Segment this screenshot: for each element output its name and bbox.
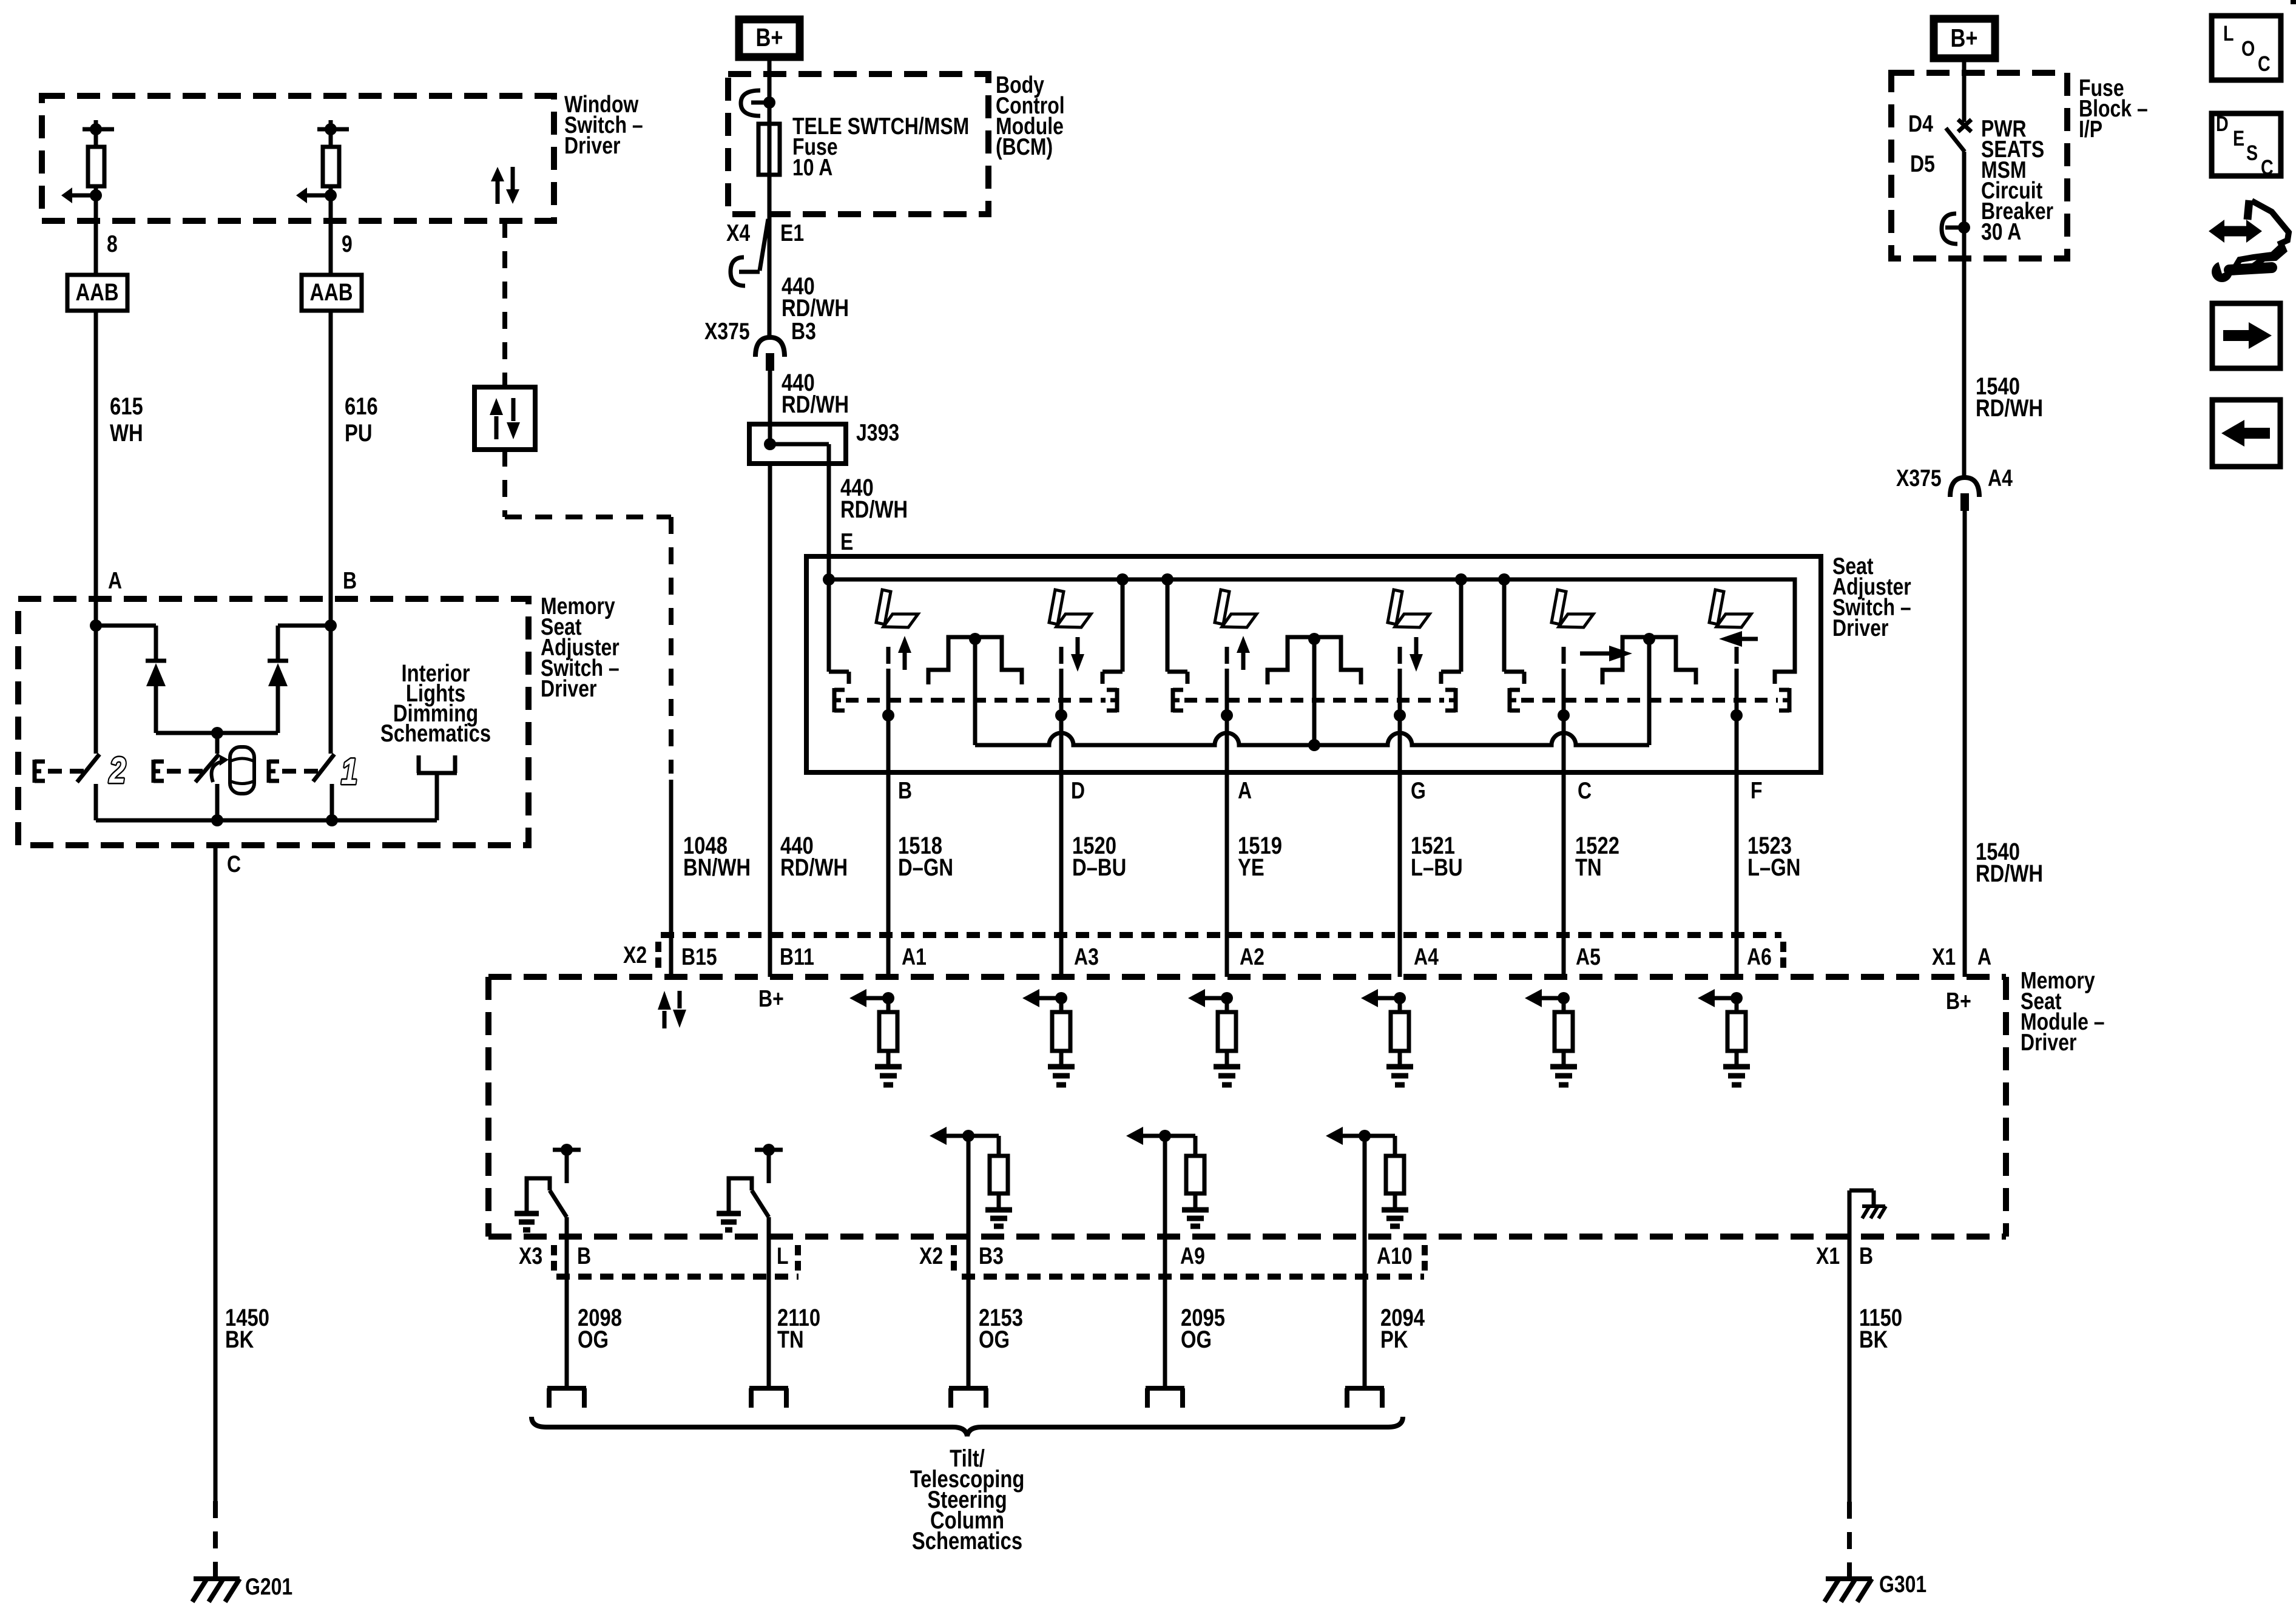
direction arrow (A) bbox=[1237, 636, 1250, 670]
svg-text:G: G bbox=[1411, 777, 1426, 804]
ground G201 bbox=[192, 1579, 240, 1602]
svg-text:B+: B+ bbox=[758, 985, 784, 1012]
label: Fuse Block - I/P bbox=[2079, 75, 2148, 143]
input resistor to ground (A1) bbox=[849, 989, 902, 1085]
label 1519 YE bbox=[1238, 832, 1282, 881]
switch feed left (A) bbox=[1167, 579, 1187, 684]
wire 615 WH bbox=[94, 311, 98, 599]
connector AAB (right) bbox=[302, 275, 362, 311]
label 1540 RD/WH (2) bbox=[1976, 838, 2043, 887]
svg-text:Driver: Driver bbox=[1832, 615, 1889, 641]
label G201 bbox=[245, 1573, 292, 1600]
svg-text:C: C bbox=[2261, 155, 2274, 179]
svg-text:616: 616 bbox=[345, 393, 378, 420]
pin B label (X1) bbox=[1859, 1243, 1873, 1269]
seat icon (F) bbox=[1709, 590, 1751, 627]
icon DESC bbox=[2212, 112, 2281, 179]
B+ bus inside seat switch bbox=[823, 573, 1795, 684]
switch mid lower contact stub bbox=[215, 784, 220, 820]
input resistor to ground (A5) bbox=[1525, 989, 1577, 1085]
fuse block - I/P box bbox=[1891, 73, 2067, 258]
wire pin F bbox=[1735, 715, 1739, 977]
up/down arrow box symbol bbox=[474, 387, 535, 450]
wire E into seat adjuster switch bbox=[827, 464, 831, 579]
pin A9 label bbox=[1180, 1243, 1205, 1269]
label 2098 OG bbox=[578, 1304, 622, 1353]
svg-text:B+: B+ bbox=[756, 24, 783, 52]
svg-text:PU: PU bbox=[345, 419, 373, 447]
wire pin C bbox=[1562, 715, 1566, 977]
svg-text:AAB: AAB bbox=[309, 279, 353, 306]
label X2 (top) bbox=[623, 942, 647, 968]
pin A label (X1) bbox=[1977, 944, 1991, 970]
svg-text:RD/WH: RD/WH bbox=[780, 854, 848, 881]
svg-text:O: O bbox=[2241, 36, 2255, 60]
wire pin D bbox=[1059, 715, 1064, 977]
svg-text:615: 615 bbox=[110, 393, 143, 420]
ground G301 bbox=[1825, 1579, 1872, 1602]
seat icon (G) bbox=[1388, 590, 1430, 627]
svg-text:Schematics: Schematics bbox=[912, 1527, 1022, 1555]
wire X375 to J393 bbox=[768, 371, 772, 444]
svg-text:X1: X1 bbox=[1816, 1243, 1840, 1269]
icon harness repair bbox=[2209, 200, 2289, 282]
svg-text:TN: TN bbox=[1575, 854, 1602, 881]
svg-text:WH: WH bbox=[110, 419, 143, 447]
wire pin G bbox=[1398, 715, 1402, 977]
label: PWR SEATS MSM Circuit Breaker 30 A bbox=[1981, 115, 2053, 245]
pin 9 label bbox=[342, 231, 353, 257]
label X375 bbox=[704, 318, 750, 345]
output driver with resistor to ground (pin B3) bbox=[930, 1127, 1012, 1388]
svg-text:A10: A10 bbox=[1377, 1243, 1413, 1269]
direction arrow (C) bbox=[1580, 646, 1632, 661]
label: TELE SWTCH/MSM Fuse 10 A bbox=[792, 113, 969, 181]
pin letter C bbox=[1578, 777, 1592, 804]
terminal at wire B bbox=[547, 1388, 586, 1408]
svg-text:X375: X375 bbox=[704, 318, 750, 345]
splice J393 bbox=[749, 424, 846, 464]
pin A1 label bbox=[902, 944, 927, 970]
input resistor to ground (A6) bbox=[1698, 989, 1750, 1085]
label G301 bbox=[1879, 1571, 1926, 1598]
svg-text:F: F bbox=[1751, 777, 1763, 804]
label J393 bbox=[856, 419, 899, 446]
svg-text:B+: B+ bbox=[1946, 988, 1971, 1014]
svg-text:L–BU: L–BU bbox=[1411, 854, 1463, 881]
window switch contact (pin 9) with resistor and arrow bbox=[296, 120, 349, 221]
label: Window Switch - Driver bbox=[564, 91, 643, 159]
svg-text:B: B bbox=[343, 567, 357, 594]
label 440 RD/WH (3) bbox=[840, 474, 908, 523]
label: Body Control Module (BCM) bbox=[996, 72, 1065, 160]
svg-text:B+: B+ bbox=[1951, 24, 1978, 53]
seat icon (B) bbox=[876, 590, 918, 627]
direction arrow (B) bbox=[898, 636, 911, 670]
svg-text:A5: A5 bbox=[1576, 944, 1601, 970]
output switch to ground (pin B, X3) bbox=[515, 1144, 581, 1388]
label 2094 PK bbox=[1380, 1304, 1425, 1353]
wire B into switch bbox=[325, 599, 337, 754]
svg-text:B15: B15 bbox=[681, 944, 717, 970]
label X4 bbox=[726, 220, 750, 246]
switch mid arm bbox=[195, 754, 219, 782]
pin B3 label bbox=[979, 1243, 1004, 1269]
icon LOC bbox=[2212, 16, 2281, 80]
wire 440 RD/WH to B11 bbox=[768, 464, 772, 977]
svg-text:A4: A4 bbox=[1414, 944, 1439, 970]
direction arrow (F) bbox=[1719, 631, 1758, 647]
pin C label bbox=[227, 851, 241, 877]
svg-text:RD/WH: RD/WH bbox=[1976, 394, 2043, 422]
label E1 bbox=[780, 220, 804, 246]
switch feed right (G) bbox=[1441, 579, 1461, 684]
interior lights dimming terminal bbox=[417, 755, 457, 820]
guide contact (C/F) bbox=[1602, 633, 1696, 745]
circuit breaker PWR SEATS MSM 30A bbox=[1946, 120, 1971, 258]
svg-text:L: L bbox=[777, 1243, 789, 1269]
svg-text:B3: B3 bbox=[979, 1243, 1004, 1269]
switch pole B bbox=[882, 647, 894, 721]
terminal at wire B3 bbox=[949, 1388, 988, 1408]
label: Seat Adjuster Switch - Driver bbox=[1832, 553, 1911, 641]
svg-text:A3: A3 bbox=[1074, 944, 1099, 970]
wire pin9 to AAB bbox=[329, 221, 333, 275]
svg-text:G201: G201 bbox=[245, 1573, 292, 1600]
svg-text:D–GN: D–GN bbox=[898, 854, 953, 881]
pin letter F bbox=[1751, 777, 1763, 804]
label B3 bbox=[791, 318, 816, 345]
svg-text:OG: OG bbox=[1181, 1326, 1212, 1353]
seat icon (A) bbox=[1215, 590, 1257, 627]
switch pole F bbox=[1730, 647, 1743, 721]
pin A3 label bbox=[1074, 944, 1099, 970]
label 616 PU bbox=[345, 393, 378, 447]
connector AAB (left) bbox=[67, 275, 127, 311]
label 1522 TN bbox=[1575, 832, 1619, 881]
label B+ (X1 A) bbox=[1946, 988, 1971, 1014]
label: Memory Seat Module - Driver bbox=[2021, 967, 2105, 1056]
svg-text:C: C bbox=[227, 851, 241, 877]
switch 2 arm bbox=[77, 754, 100, 782]
svg-text:X2: X2 bbox=[919, 1243, 943, 1269]
wire 1450 BK bbox=[214, 845, 218, 1576]
label X1 (top) bbox=[1932, 944, 1956, 970]
svg-text:A4: A4 bbox=[1988, 465, 2013, 491]
input resistor to ground (A4) bbox=[1361, 989, 1413, 1085]
svg-text:D: D bbox=[2216, 112, 2229, 135]
svg-text:AAB: AAB bbox=[75, 279, 118, 306]
diode D-right bbox=[268, 626, 331, 733]
svg-text:B: B bbox=[577, 1243, 591, 1269]
svg-text:A2: A2 bbox=[1240, 944, 1264, 970]
svg-text:2: 2 bbox=[109, 749, 126, 791]
icon arrow left bbox=[2212, 400, 2280, 467]
svg-text:A: A bbox=[108, 567, 122, 594]
brace: tilt/telescoping steering column bbox=[532, 1417, 1403, 1436]
svg-text:B: B bbox=[898, 777, 912, 804]
diode D-left bbox=[96, 626, 166, 733]
label A4 bbox=[1988, 465, 2013, 491]
svg-text:E1: E1 bbox=[780, 220, 804, 246]
svg-text:YE: YE bbox=[1238, 854, 1264, 881]
label 1450 BK bbox=[225, 1304, 269, 1353]
page corner mark bbox=[2291, 0, 2296, 4]
label 1540 RD/WH (1) bbox=[1976, 373, 2043, 422]
svg-text:C: C bbox=[2258, 52, 2271, 75]
pin A5 label bbox=[1576, 944, 1601, 970]
svg-text:C: C bbox=[1578, 777, 1592, 804]
svg-text:X375: X375 bbox=[1896, 465, 1942, 491]
label 1048 BN/WH bbox=[683, 832, 751, 881]
switch pole G bbox=[1394, 647, 1406, 721]
pin letter G bbox=[1411, 777, 1426, 804]
svg-text:D4: D4 bbox=[1908, 110, 1933, 137]
output switch to ground (pin L, X3) bbox=[717, 1144, 783, 1388]
output driver with resistor to ground (pin A9) bbox=[1126, 1127, 1209, 1388]
svg-text:9: 9 bbox=[342, 231, 353, 257]
BCM internal terminal hook bbox=[741, 90, 775, 116]
svg-text:10 A: 10 A bbox=[792, 154, 832, 181]
label E pin bbox=[840, 528, 853, 555]
svg-text:X1: X1 bbox=[1932, 944, 1956, 970]
label D4 bbox=[1908, 110, 1933, 137]
svg-text:30 A: 30 A bbox=[1981, 218, 2021, 245]
label: Tilt/Telescoping Steering Column Schematics bbox=[910, 1445, 1025, 1555]
pin A2 label bbox=[1240, 944, 1264, 970]
svg-text:E: E bbox=[840, 528, 853, 555]
svg-text:(BCM): (BCM) bbox=[996, 133, 1053, 160]
svg-text:A: A bbox=[1238, 777, 1252, 804]
window switch contact (pin 8) with resistor and arrow bbox=[61, 120, 114, 221]
svg-text:B11: B11 bbox=[780, 944, 814, 970]
svg-text:L: L bbox=[2223, 21, 2234, 45]
wire pin8 to AAB bbox=[94, 221, 98, 275]
label 2153 OG bbox=[979, 1304, 1023, 1353]
pin B11 label bbox=[780, 944, 814, 970]
svg-text:BK: BK bbox=[1859, 1326, 1888, 1353]
svg-text:X2: X2 bbox=[623, 942, 647, 968]
label 615 WH bbox=[110, 393, 143, 447]
guide contact (A/G) bbox=[1268, 633, 1361, 745]
svg-text:BN/WH: BN/WH bbox=[683, 854, 751, 881]
svg-text:OG: OG bbox=[578, 1326, 609, 1353]
body control module (BCM) box bbox=[728, 74, 988, 214]
svg-text:RD/WH: RD/WH bbox=[840, 496, 908, 523]
switch feed right (D) bbox=[1102, 579, 1123, 684]
svg-text:A9: A9 bbox=[1180, 1243, 1205, 1269]
svg-text:L–GN: L–GN bbox=[1747, 854, 1800, 881]
pin L label (X3) bbox=[777, 1243, 789, 1269]
terminal at wire L bbox=[749, 1388, 788, 1408]
label 2095 OG bbox=[1181, 1304, 1225, 1353]
switch 1 pivot bracket and linkage bbox=[269, 760, 323, 783]
seat icon (D) bbox=[1049, 590, 1091, 627]
direction arrow (G) bbox=[1410, 637, 1423, 672]
connector X375 B3 inline bbox=[755, 337, 785, 371]
wire 1150 BK bbox=[1848, 1237, 1852, 1576]
svg-text:OG: OG bbox=[979, 1326, 1010, 1353]
label 1520 D-BU bbox=[1072, 832, 1126, 881]
dashed wire from window switch down bbox=[502, 221, 507, 387]
label 1521 L-BU bbox=[1411, 832, 1463, 881]
svg-text:Driver: Driver bbox=[564, 132, 621, 159]
wire 616 PU bbox=[329, 311, 333, 599]
memory seat module - driver box bbox=[488, 977, 2006, 1237]
svg-text:X3: X3 bbox=[519, 1243, 542, 1269]
connector X3 pin row bbox=[554, 1245, 799, 1277]
svg-text:I/P: I/P bbox=[2079, 116, 2102, 143]
switch feed left (C) bbox=[1504, 579, 1524, 684]
wire pin B bbox=[886, 715, 891, 977]
label 1518 D-GN bbox=[898, 832, 953, 881]
connector X2 top row bbox=[658, 935, 1783, 971]
fuse TELE SWTCH/MSM 10A bbox=[758, 124, 780, 175]
wire B+ into BCM bbox=[768, 61, 772, 124]
label B+ (B11) bbox=[758, 985, 784, 1012]
switch feed left (B) bbox=[829, 579, 849, 684]
switch pole A bbox=[1221, 647, 1233, 721]
svg-text:S: S bbox=[2246, 141, 2258, 164]
numeral 2 bbox=[109, 749, 126, 791]
breaker terminal hook bbox=[1942, 214, 1970, 244]
pin A label bbox=[108, 567, 122, 594]
label 1150 BK bbox=[1859, 1304, 1902, 1353]
switch 2 lower contact stub bbox=[94, 784, 98, 820]
pin B label bbox=[343, 567, 357, 594]
svg-text:G301: G301 bbox=[1879, 1571, 1926, 1598]
svg-text:X4: X4 bbox=[726, 220, 750, 246]
pin letter D bbox=[1071, 777, 1085, 804]
wire 1540 RD/WH lower bbox=[1963, 511, 1967, 977]
guide contact (B/D) bbox=[928, 633, 1022, 745]
switch 2 pivot bracket and linkage bbox=[35, 760, 89, 783]
svg-text:A6: A6 bbox=[1747, 944, 1772, 970]
svg-text:D5: D5 bbox=[1910, 150, 1935, 177]
switch 1 arm bbox=[313, 754, 334, 781]
memory seat adjuster switch - driver box bbox=[18, 599, 528, 845]
wire A into switch bbox=[90, 599, 102, 754]
svg-text:B3: B3 bbox=[791, 318, 816, 345]
linkage row (A/G) bbox=[1173, 688, 1456, 712]
label X375 (right) bbox=[1896, 465, 1942, 491]
output driver with resistor to ground (pin A10) bbox=[1326, 1127, 1408, 1388]
pin A4 label bbox=[1414, 944, 1439, 970]
label 440 RD/WH (1) bbox=[782, 272, 849, 322]
svg-text:D: D bbox=[1071, 777, 1085, 804]
up/down arrows in window switch box bbox=[491, 167, 519, 204]
battery feed B+ (fuse block) bbox=[1934, 19, 1995, 58]
switch common bus bbox=[96, 814, 437, 826]
switch pole D bbox=[1055, 647, 1067, 721]
label: Interior Lights Dimming Schematics bbox=[380, 660, 491, 747]
svg-text:Driver: Driver bbox=[2021, 1029, 2077, 1056]
label D5 bbox=[1910, 150, 1935, 177]
svg-text:Schematics: Schematics bbox=[380, 720, 491, 747]
wire B15 solid segment bbox=[669, 780, 674, 977]
svg-text:Driver: Driver bbox=[541, 675, 597, 702]
label 440 RD/WH (2) bbox=[782, 369, 849, 418]
svg-text:D–BU: D–BU bbox=[1072, 854, 1126, 881]
svg-text:E: E bbox=[2233, 126, 2244, 150]
input resistor to ground (A2) bbox=[1188, 989, 1240, 1085]
svg-text:RD/WH: RD/WH bbox=[782, 391, 849, 418]
wire 1540 RD/WH upper bbox=[1962, 258, 1967, 478]
diode common node bbox=[156, 727, 278, 754]
switch 1 lower contact stub bbox=[330, 784, 334, 820]
label X3 bbox=[519, 1243, 542, 1269]
connector X375 A4 inline bbox=[1950, 478, 1979, 511]
icon arrow right bbox=[2212, 303, 2280, 368]
linkage row (C/F) bbox=[1510, 688, 1789, 712]
direction arrow (D) bbox=[1071, 637, 1084, 672]
seat icon (C) bbox=[1551, 590, 1593, 627]
up/down arrows below B15 bbox=[658, 991, 686, 1028]
numeral 1 bbox=[341, 751, 357, 792]
input resistor to ground (A3) bbox=[1022, 989, 1075, 1085]
switch mid pivot bracket and linkage bbox=[154, 760, 208, 783]
wire fuse to X375 bbox=[768, 175, 772, 336]
label 1523 L-GN bbox=[1747, 832, 1800, 881]
pin 8 label bbox=[107, 231, 118, 257]
internal ground at X1 B bbox=[1849, 1190, 1886, 1237]
terminal at wire A10 bbox=[1345, 1388, 1384, 1408]
label X1 (bottom) bbox=[1816, 1243, 1840, 1269]
pin B label (X3) bbox=[577, 1243, 591, 1269]
svg-text:RD/WH: RD/WH bbox=[1976, 860, 2043, 887]
connector X4 E1 symbol bbox=[731, 219, 768, 286]
window switch - driver box bbox=[42, 96, 554, 221]
seat adjuster switch - driver box bbox=[806, 556, 1821, 772]
car icon bbox=[212, 747, 254, 794]
wire pin A bbox=[1225, 715, 1229, 977]
wire B+ into fuse block bbox=[1962, 58, 1967, 122]
label: Memory Seat Adjuster Switch - Driver bbox=[541, 593, 620, 702]
pin letter B bbox=[898, 777, 912, 804]
battery feed B+ (BCM) bbox=[739, 19, 800, 57]
svg-text:A: A bbox=[1977, 944, 1991, 970]
label 440 RD/WH (4) bbox=[780, 832, 848, 881]
dashed wire from arrow box to memory seat module B15 bbox=[505, 450, 671, 774]
svg-text:8: 8 bbox=[107, 231, 118, 257]
switch pole C bbox=[1558, 647, 1570, 721]
pin B15 label bbox=[681, 944, 717, 970]
connector X2 bottom pin row bbox=[954, 1245, 1425, 1277]
linkage row (B/D) bbox=[834, 688, 1117, 712]
label 2110 TN bbox=[777, 1304, 820, 1353]
svg-text:BK: BK bbox=[225, 1326, 254, 1353]
label X2 (bottom) bbox=[919, 1243, 943, 1269]
svg-text:PK: PK bbox=[1380, 1326, 1408, 1353]
interconnect line with wire hops bbox=[975, 733, 1649, 751]
svg-text:J393: J393 bbox=[856, 419, 899, 446]
pin A10 label bbox=[1377, 1243, 1413, 1269]
pin A6 label bbox=[1747, 944, 1772, 970]
svg-text:1: 1 bbox=[341, 751, 357, 792]
svg-text:A1: A1 bbox=[902, 944, 927, 970]
terminal at wire A9 bbox=[1146, 1388, 1184, 1408]
pin letter A bbox=[1238, 777, 1252, 804]
svg-text:B: B bbox=[1859, 1243, 1873, 1269]
svg-text:TN: TN bbox=[777, 1326, 804, 1353]
